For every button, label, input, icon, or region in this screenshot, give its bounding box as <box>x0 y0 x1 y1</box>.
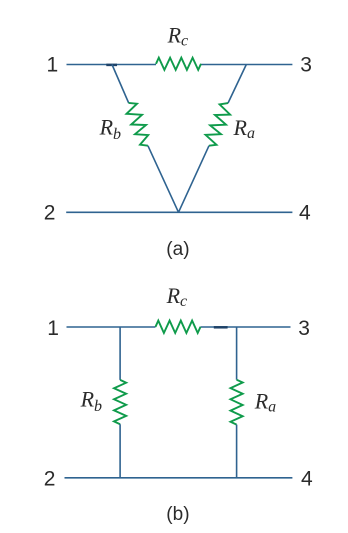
node 4 terminal label (figure a) <box>299 202 311 225</box>
node 3 terminal label (figure b) <box>298 317 310 340</box>
node 1 terminal label (figure a) <box>47 54 59 77</box>
svg-text:Rc: Rc <box>166 283 188 310</box>
wire: upper lead of Ra diagonal from top wire junction <box>228 65 246 104</box>
svg-text:(b): (b) <box>166 504 189 525</box>
wire: top wire right segment, resistor Rc to node 3 <box>201 64 292 66</box>
wire: top wire right segment, resistor Rc to node 3 (figure b) <box>201 326 291 328</box>
svg-text:Ra: Ra <box>233 115 255 142</box>
label Rc (figure a) <box>167 22 189 49</box>
svg-text:1: 1 <box>47 317 59 340</box>
svg-text:3: 3 <box>300 54 312 77</box>
wire: upper lead of Rb vertical branch (figure b) <box>119 327 121 380</box>
svg-text:2: 2 <box>44 468 56 491</box>
wire: lower lead of Rb diagonal down to bottom vertex <box>148 146 179 213</box>
wire: upper lead of Rb diagonal from top wire junction <box>112 65 129 104</box>
svg-text:(a): (a) <box>166 239 189 260</box>
svg-text:Ra: Ra <box>254 389 276 416</box>
wire: top wire left segment, node 1 to resistor Rc (figure b) <box>67 326 156 328</box>
wire: lower lead of Ra diagonal down to bottom vertex <box>179 146 210 213</box>
svg-text:Rc: Rc <box>167 22 189 49</box>
label Ra (figure b) <box>254 389 276 416</box>
resistor Rb (figure b, vertical zigzag) <box>114 380 126 424</box>
node 3 terminal label (figure a) <box>300 54 312 77</box>
svg-text:3: 3 <box>298 317 310 340</box>
label Ra (figure a) <box>233 115 255 142</box>
caption (b) <box>166 504 189 525</box>
wire: lower lead of Rb vertical branch (figure b) <box>119 424 121 478</box>
resistor Rc (figure a, horizontal zigzag) <box>156 58 201 70</box>
wire: upper lead of Ra vertical branch (figure b) <box>236 327 238 380</box>
label Rb (figure b) <box>80 387 102 415</box>
wire: bottom wire from node 2 to node 4 (figure a) <box>66 211 292 213</box>
junction mark on top wire (thick dark segment, figure b) <box>214 326 228 329</box>
resistor Ra (figure b, vertical zigzag) <box>231 380 243 425</box>
svg-text:2: 2 <box>44 202 56 225</box>
svg-text:Rb: Rb <box>99 115 121 143</box>
resistor Rc (figure b, horizontal zigzag) <box>156 321 201 333</box>
node 2 terminal label (figure b) <box>44 468 56 491</box>
wire: top wire left segment, node 1 to resistor Rc <box>67 64 157 66</box>
junction mark on top wire at node joining Rb (thick dark segment) <box>106 64 117 67</box>
wire: bottom wire from node 2 to node 4 (figure b) <box>65 477 293 479</box>
label Rc (figure b) <box>166 283 188 310</box>
wire: lower lead of Ra vertical branch (figure b) <box>236 425 238 478</box>
node 4 terminal label (figure b) <box>301 468 313 491</box>
resistor Ra (figure a, diagonal zigzag) <box>206 103 231 146</box>
node 2 terminal label (figure a) <box>44 202 56 225</box>
resistor Rb (figure a, diagonal zigzag) <box>127 103 149 146</box>
svg-text:4: 4 <box>301 468 313 491</box>
svg-text:1: 1 <box>47 54 59 77</box>
svg-text:Rb: Rb <box>80 387 102 415</box>
caption (a) <box>166 239 189 260</box>
label Rb (figure a) <box>99 115 121 143</box>
svg-text:4: 4 <box>299 202 311 225</box>
node 1 terminal label (figure b) <box>47 317 59 340</box>
